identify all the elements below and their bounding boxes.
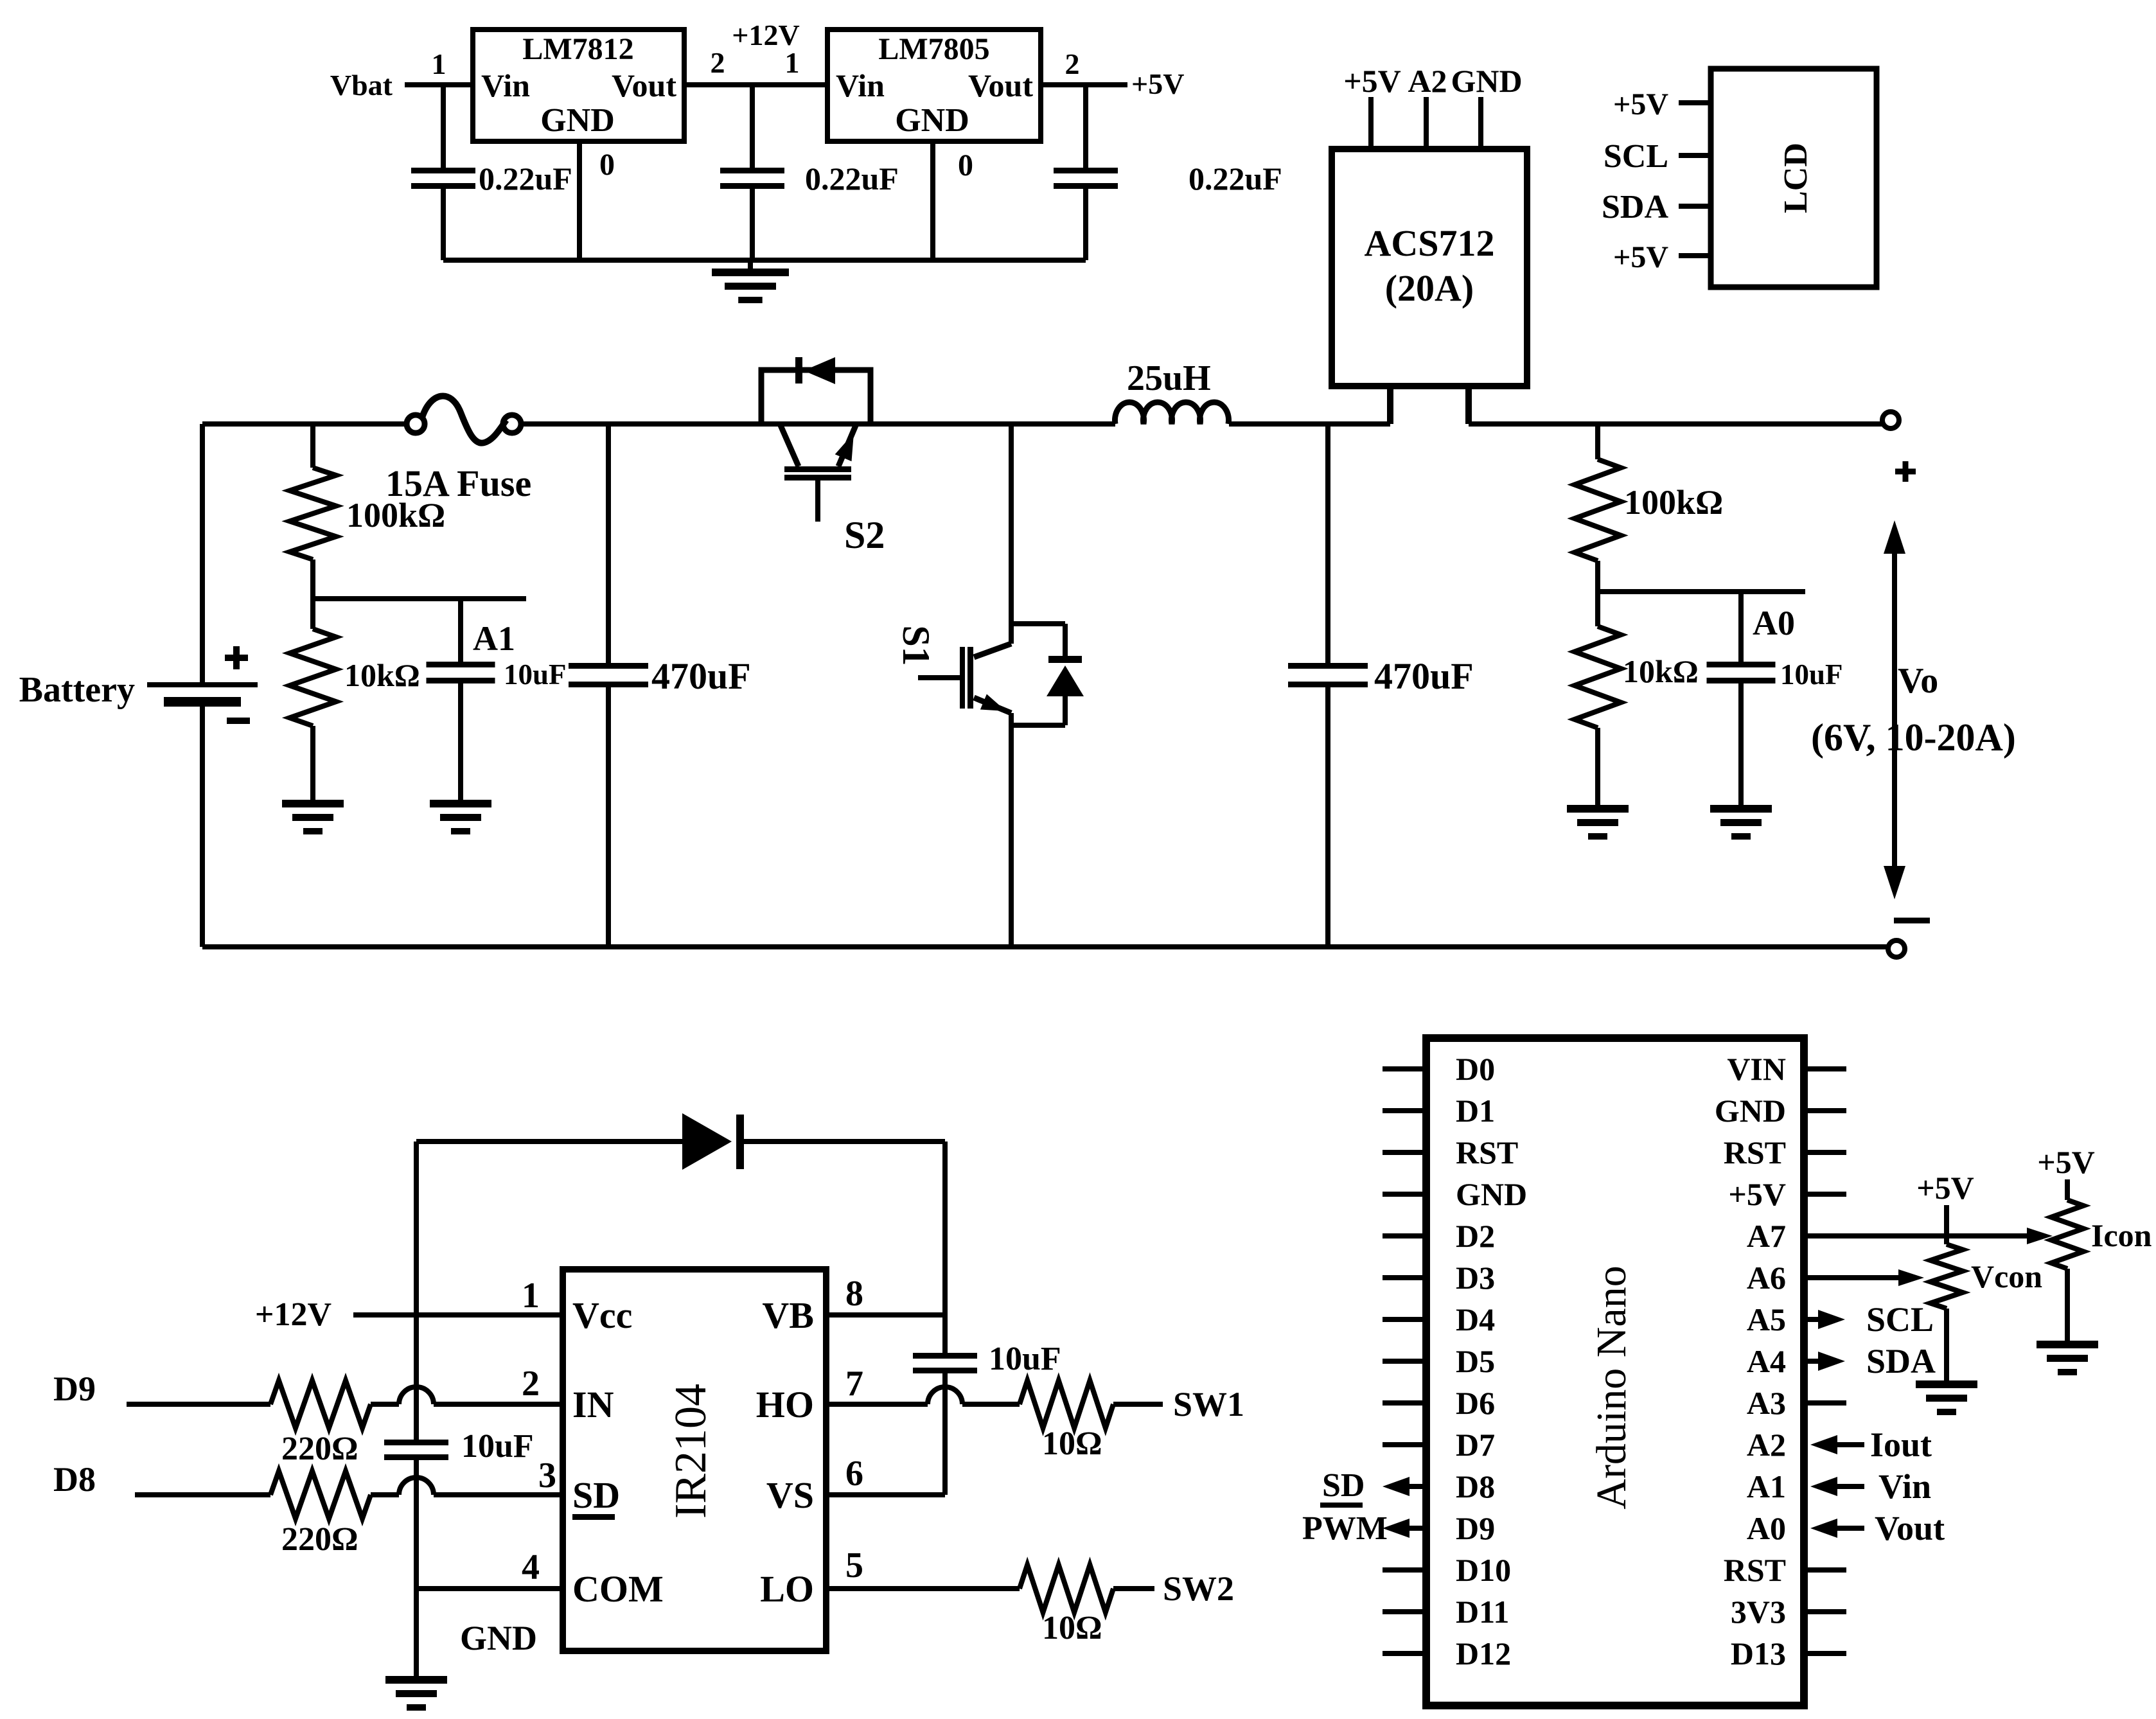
svg-text:D12: D12 [1456,1635,1511,1671]
svg-text:LM7812: LM7812 [522,32,633,66]
svg-text:D13: D13 [1731,1635,1786,1671]
svg-text:2: 2 [1065,48,1080,80]
svg-text:D8: D8 [1456,1468,1495,1504]
svg-text:RST: RST [1724,1134,1786,1170]
svg-text:3V3: 3V3 [1731,1594,1786,1630]
svg-text:10Ω: 10Ω [1042,1425,1102,1462]
svg-text:SDA: SDA [1602,189,1668,225]
svg-text:Vcc: Vcc [572,1294,632,1336]
svg-text:A3: A3 [1747,1385,1786,1421]
svg-text:D2: D2 [1456,1218,1495,1254]
svg-text:HO: HO [756,1384,814,1425]
svg-text:0.22uF: 0.22uF [479,161,572,197]
svg-text:D9: D9 [1456,1510,1495,1546]
svg-text:10kΩ: 10kΩ [1623,653,1699,689]
svg-text:A4: A4 [1747,1343,1786,1379]
svg-text:A5: A5 [1747,1301,1786,1337]
svg-text:SW1: SW1 [1173,1385,1244,1424]
svg-text:Battery: Battery [19,670,135,710]
svg-text:A2: A2 [1408,63,1447,99]
svg-text:10Ω: 10Ω [1042,1610,1102,1646]
svg-text:D0: D0 [1456,1051,1495,1087]
svg-text:LO: LO [760,1568,814,1610]
svg-text:+12V: +12V [255,1296,331,1333]
svg-text:D5: D5 [1456,1343,1495,1379]
svg-text:7: 7 [845,1364,863,1404]
svg-text:VIN: VIN [1727,1051,1786,1087]
svg-text:10uF: 10uF [1780,658,1843,691]
svg-text:D4: D4 [1456,1301,1495,1337]
svg-text:1: 1 [785,46,800,79]
svg-text:+5V: +5V [1613,87,1668,121]
svg-text:6: 6 [845,1454,863,1494]
svg-text:A0: A0 [1747,1510,1786,1546]
svg-text:Vcon: Vcon [1971,1258,2042,1294]
svg-text:A1: A1 [473,619,515,658]
svg-text:D6: D6 [1456,1385,1495,1421]
svg-text:3: 3 [538,1456,556,1495]
svg-text:D3: D3 [1456,1260,1495,1296]
svg-text:220Ω: 220Ω [281,1431,358,1467]
svg-text:S1: S1 [895,625,937,666]
svg-text:COM: COM [572,1568,664,1610]
svg-text:SCL: SCL [1604,138,1668,175]
svg-text:D8: D8 [53,1460,96,1499]
svg-text:A0: A0 [1753,604,1795,642]
svg-text:470uF: 470uF [651,655,751,697]
svg-text:10kΩ: 10kΩ [344,657,420,693]
svg-text:(20A): (20A) [1385,267,1474,309]
svg-text:(6V, 10-20A): (6V, 10-20A) [1811,716,2016,759]
svg-text:LCD: LCD [1778,143,1814,213]
svg-text:25uH: 25uH [1127,358,1211,398]
svg-text:A7: A7 [1747,1218,1786,1254]
svg-text:SCL: SCL [1866,1300,1934,1339]
svg-text:Vout: Vout [612,67,676,103]
svg-text:0.22uF: 0.22uF [1188,161,1282,197]
svg-text:D7: D7 [1456,1427,1495,1463]
svg-text:D10: D10 [1456,1552,1511,1588]
svg-text:IN: IN [572,1384,614,1425]
svg-text:A2: A2 [1747,1427,1786,1463]
svg-text:5: 5 [845,1546,863,1585]
svg-text:10uF: 10uF [989,1341,1061,1377]
svg-text:+5V: +5V [2037,1144,2095,1180]
svg-text:VB: VB [762,1294,814,1336]
svg-text:Iout: Iout [1870,1425,1932,1464]
svg-text:Vbat: Vbat [330,69,393,101]
svg-text:GND: GND [1715,1093,1786,1129]
svg-text:+5V: +5V [1131,67,1184,100]
svg-text:A6: A6 [1747,1260,1786,1296]
svg-text:2: 2 [522,1364,540,1404]
svg-text:GND: GND [1451,63,1522,99]
svg-text:ACS712: ACS712 [1364,222,1494,264]
svg-text:Vin: Vin [1878,1467,1931,1506]
svg-text:0.22uF: 0.22uF [805,161,899,197]
svg-text:100kΩ: 100kΩ [1624,483,1723,522]
svg-text:VS: VS [766,1474,814,1516]
svg-text:RST: RST [1724,1552,1786,1588]
svg-text:10uF: 10uF [461,1428,534,1465]
svg-text:2: 2 [711,46,725,79]
svg-text:GND: GND [460,1619,537,1657]
svg-text:PWM: PWM [1302,1510,1388,1547]
svg-text:GND: GND [895,102,969,139]
svg-text:+5V: +5V [1728,1176,1786,1212]
svg-text:1: 1 [432,48,446,80]
svg-text:D11: D11 [1456,1594,1509,1630]
svg-text:S2: S2 [844,514,885,556]
svg-text:Vout: Vout [968,67,1033,103]
svg-text:Vin: Vin [836,67,885,103]
svg-text:Vo: Vo [1898,661,1938,701]
svg-text:GND: GND [1456,1176,1527,1212]
svg-text:+5V: +5V [1613,240,1668,274]
svg-text:+5V: +5V [1916,1170,1974,1206]
svg-text:100kΩ: 100kΩ [346,496,445,534]
svg-text:RST: RST [1456,1134,1518,1170]
svg-text:8: 8 [845,1274,863,1314]
svg-text:Vin: Vin [481,67,530,103]
svg-text:1: 1 [522,1276,540,1316]
svg-text:220Ω: 220Ω [281,1521,358,1558]
svg-text:470uF: 470uF [1374,655,1474,697]
svg-text:SDA: SDA [1866,1342,1936,1380]
svg-text:Vout: Vout [1875,1509,1945,1547]
svg-text:LM7805: LM7805 [878,32,989,66]
svg-text:GND: GND [540,102,615,139]
svg-text:0: 0 [599,148,615,182]
svg-text:10uF: 10uF [504,658,567,691]
svg-text:SD: SD [572,1474,620,1516]
svg-text:Arduino Nano: Arduino Nano [1588,1265,1635,1509]
svg-text:0: 0 [958,148,973,182]
svg-text:+5V: +5V [1343,63,1401,99]
svg-text:D9: D9 [53,1370,96,1408]
svg-text:D1: D1 [1456,1093,1495,1129]
svg-text:4: 4 [522,1547,540,1587]
svg-text:SD: SD [1322,1467,1365,1504]
svg-text:SW2: SW2 [1163,1569,1234,1608]
svg-text:Icon: Icon [2091,1217,2152,1253]
svg-text:IR2104: IR2104 [666,1384,716,1519]
svg-text:A1: A1 [1747,1468,1786,1504]
